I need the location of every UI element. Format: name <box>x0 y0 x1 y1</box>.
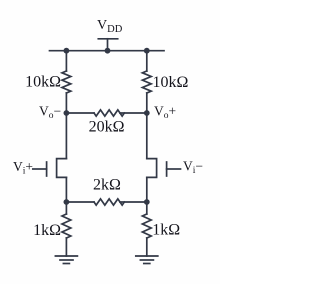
junction dot rail left <box>64 48 70 54</box>
node Vo- dot <box>64 110 70 116</box>
resistor R4 2k with wires between source nodes <box>66 199 146 205</box>
svg-text:1kΩ: 1kΩ <box>33 222 61 239</box>
resistor R3 20k with wires to Vo- and Vo+ <box>66 110 146 116</box>
wire node B to R6 <box>146 202 148 214</box>
transistor Q2 right MOSFET <box>147 159 181 178</box>
ground right <box>136 256 158 264</box>
wire node A to R5 <box>65 202 67 214</box>
transistor Q1 left MOSFET <box>33 159 67 178</box>
svg-text:10kΩ: 10kΩ <box>25 74 61 91</box>
junction dot rail center <box>105 48 111 54</box>
wire R6 to ground <box>146 238 148 256</box>
wire Vo- node to Q1 drain <box>65 113 67 159</box>
wire R5 to ground <box>65 238 67 256</box>
resistor R5 1k left <box>62 214 71 238</box>
wire Q1 source to node A <box>65 177 67 202</box>
wire R2 to node Vo+ <box>146 93 148 113</box>
node B dot <box>144 199 150 205</box>
svg-text:10kΩ: 10kΩ <box>153 74 189 91</box>
wire Vo+ node to Q2 drain <box>146 113 148 159</box>
wire top rail <box>50 50 165 52</box>
junction dot rail right <box>144 48 150 54</box>
resistor R6 1k right <box>142 214 151 238</box>
ground left <box>55 256 77 264</box>
resistor R1 10k left <box>62 71 71 93</box>
wire Q2 source to node B <box>146 177 148 202</box>
wire right branch: rail to R2 <box>146 51 148 71</box>
svg-text:2kΩ: 2kΩ <box>93 177 121 194</box>
svg-text:1kΩ: 1kΩ <box>152 222 180 239</box>
supply VDD terminal bar <box>98 39 117 51</box>
wire left branch: rail to R1 <box>65 51 67 71</box>
wire R1 to node Vo- <box>65 93 67 113</box>
svg-text:20kΩ: 20kΩ <box>89 119 125 136</box>
node A dot <box>64 199 70 205</box>
resistor R2 10k right <box>142 71 151 93</box>
node Vo+ dot <box>144 110 150 116</box>
